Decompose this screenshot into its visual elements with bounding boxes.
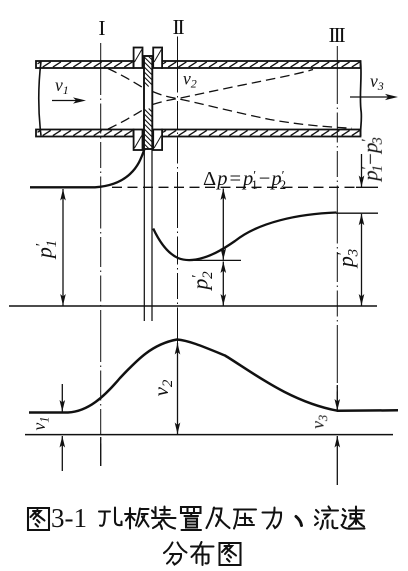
jet dashed line upstream bottom — [108, 110, 144, 130]
dashed delta-p level line — [112, 186, 358, 188]
pipe bottom wall left segment — [36, 130, 134, 137]
flow arrow v1 — [52, 97, 86, 103]
flange tab bottom-right — [153, 130, 162, 151]
section line II — [177, 37, 179, 345]
pipe right break line — [360, 61, 361, 136]
flange tab top-left — [134, 48, 143, 69]
glyph 图 (second) — [220, 543, 241, 565]
plate leg left (tap line) — [143, 149, 145, 321]
pressure baseline — [9, 305, 377, 307]
flange tab bottom-left — [134, 130, 143, 151]
jet dashed line downstream descending — [153, 92, 353, 129]
glyph 力 — [263, 508, 282, 529]
pressure curve left branch — [30, 149, 145, 188]
plate leg right (tap line) — [151, 149, 153, 321]
glyph 装 — [152, 507, 176, 530]
glyph 图 — [28, 508, 49, 530]
pipe bottom wall right segment — [38, 62, 361, 137]
pipe top wall right segment — [162, 61, 361, 68]
pressure curve right branch — [153, 213, 336, 261]
section line III — [336, 46, 338, 412]
jet dashed line downstream ascending — [153, 70, 314, 105]
velocity curve — [29, 340, 398, 413]
dimension arrow delta-p — [221, 189, 227, 260]
caption line 2: 分布图 — [164, 542, 241, 565]
glyph 、 — [296, 517, 302, 526]
glyph 板 — [125, 508, 149, 529]
solid tick at p1 level right — [356, 186, 378, 188]
glyph 分 — [164, 543, 187, 565]
caption line 1: 图3-1 孔板装置及压力、流速 — [28, 507, 365, 531]
pipe left mouth line — [39, 62, 41, 136]
svg-text:p′1−p′3: p′1−p′3 — [358, 137, 386, 183]
section line I — [100, 43, 102, 466]
glyph 压 — [234, 510, 256, 529]
svg-text:Δp=p′1−p′2: Δp=p′1−p′2 — [203, 168, 286, 193]
orifice plate (hatched, hole gap in middle) — [144, 56, 152, 149]
glyph 布 — [191, 542, 214, 565]
jet dashed line upstream top — [108, 69, 144, 89]
dimension arrow v2 — [175, 343, 181, 434]
svg-text:I: I — [98, 16, 105, 40]
svg-text:III: III — [329, 23, 346, 47]
glyph 置 — [181, 507, 201, 530]
dimension arrow p'2 — [221, 262, 227, 306]
glyph 速 — [342, 507, 365, 529]
wall hatching — [38, 62, 360, 136]
svg-text:3-1: 3-1 — [51, 503, 87, 533]
v1 outside arrows — [60, 384, 66, 471]
tick at p3 level — [336, 212, 378, 214]
glyph 孔 — [99, 508, 122, 526]
p'1-p'3 outside arrow upper shaft — [359, 154, 365, 187]
glyph 及 — [207, 508, 230, 529]
flow arrow v3 — [350, 94, 398, 100]
v3 outside arrows — [335, 385, 341, 485]
dimension arrow p'1 — [60, 189, 66, 306]
glyph 流 — [315, 507, 338, 530]
flange tab top-right — [153, 48, 162, 69]
pipe top wall left segment — [36, 61, 134, 68]
p'3 dimension arrow (up head doubles as lower p'1-p'3 arrow) — [359, 214, 365, 306]
velocity baseline — [25, 434, 393, 436]
tick at p2 minimum level — [186, 259, 241, 261]
